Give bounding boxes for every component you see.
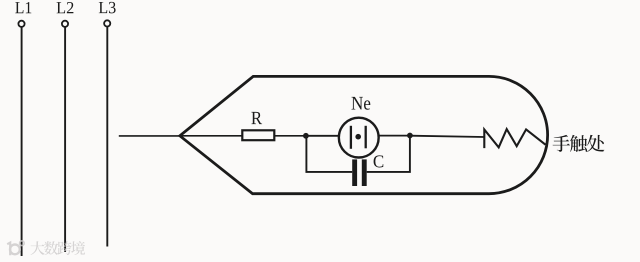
label L1 [15, 2, 31, 13]
label Ne [351, 97, 370, 110]
wire node A down to capacitor [306, 136, 352, 172]
resistor zigzag (touch contact) [484, 129, 545, 148]
terminal circle L3 [104, 20, 110, 26]
label R [251, 112, 262, 124]
terminal circle L1 [18, 21, 24, 27]
capacitor C left plate [352, 159, 357, 186]
neon lamp center dot [355, 134, 361, 140]
wire phase line L1 [21, 27, 23, 256]
wire R to node A [274, 135, 306, 137]
resistor R [242, 130, 274, 140]
label L3 [99, 2, 116, 13]
label L2 [57, 2, 74, 13]
wire node A to neon lamp [306, 135, 339, 137]
wire capacitor up to node B [367, 136, 410, 172]
capacitor C right plate [362, 159, 367, 186]
watermark text 大数跨境 [30, 241, 85, 255]
wire neon lamp to node B [379, 135, 410, 137]
wire node B to body resistance [410, 136, 484, 137]
tester pen body outline [180, 76, 548, 193]
wire tip to R [181, 135, 243, 137]
neon lamp left electrode [350, 126, 352, 149]
node A junction dot [303, 133, 309, 139]
wire probe input lead [119, 135, 181, 137]
terminal circle L2 [62, 21, 68, 27]
node B junction dot [407, 133, 413, 139]
wire phase line L3 [106, 27, 108, 247]
neon lamp Ne circle [339, 118, 379, 158]
watermark logo [7, 241, 24, 255]
label C [374, 155, 384, 167]
label 手触处 (touch point) [553, 135, 605, 152]
neon lamp right electrode [365, 126, 367, 149]
wire phase line L2 [64, 27, 66, 252]
